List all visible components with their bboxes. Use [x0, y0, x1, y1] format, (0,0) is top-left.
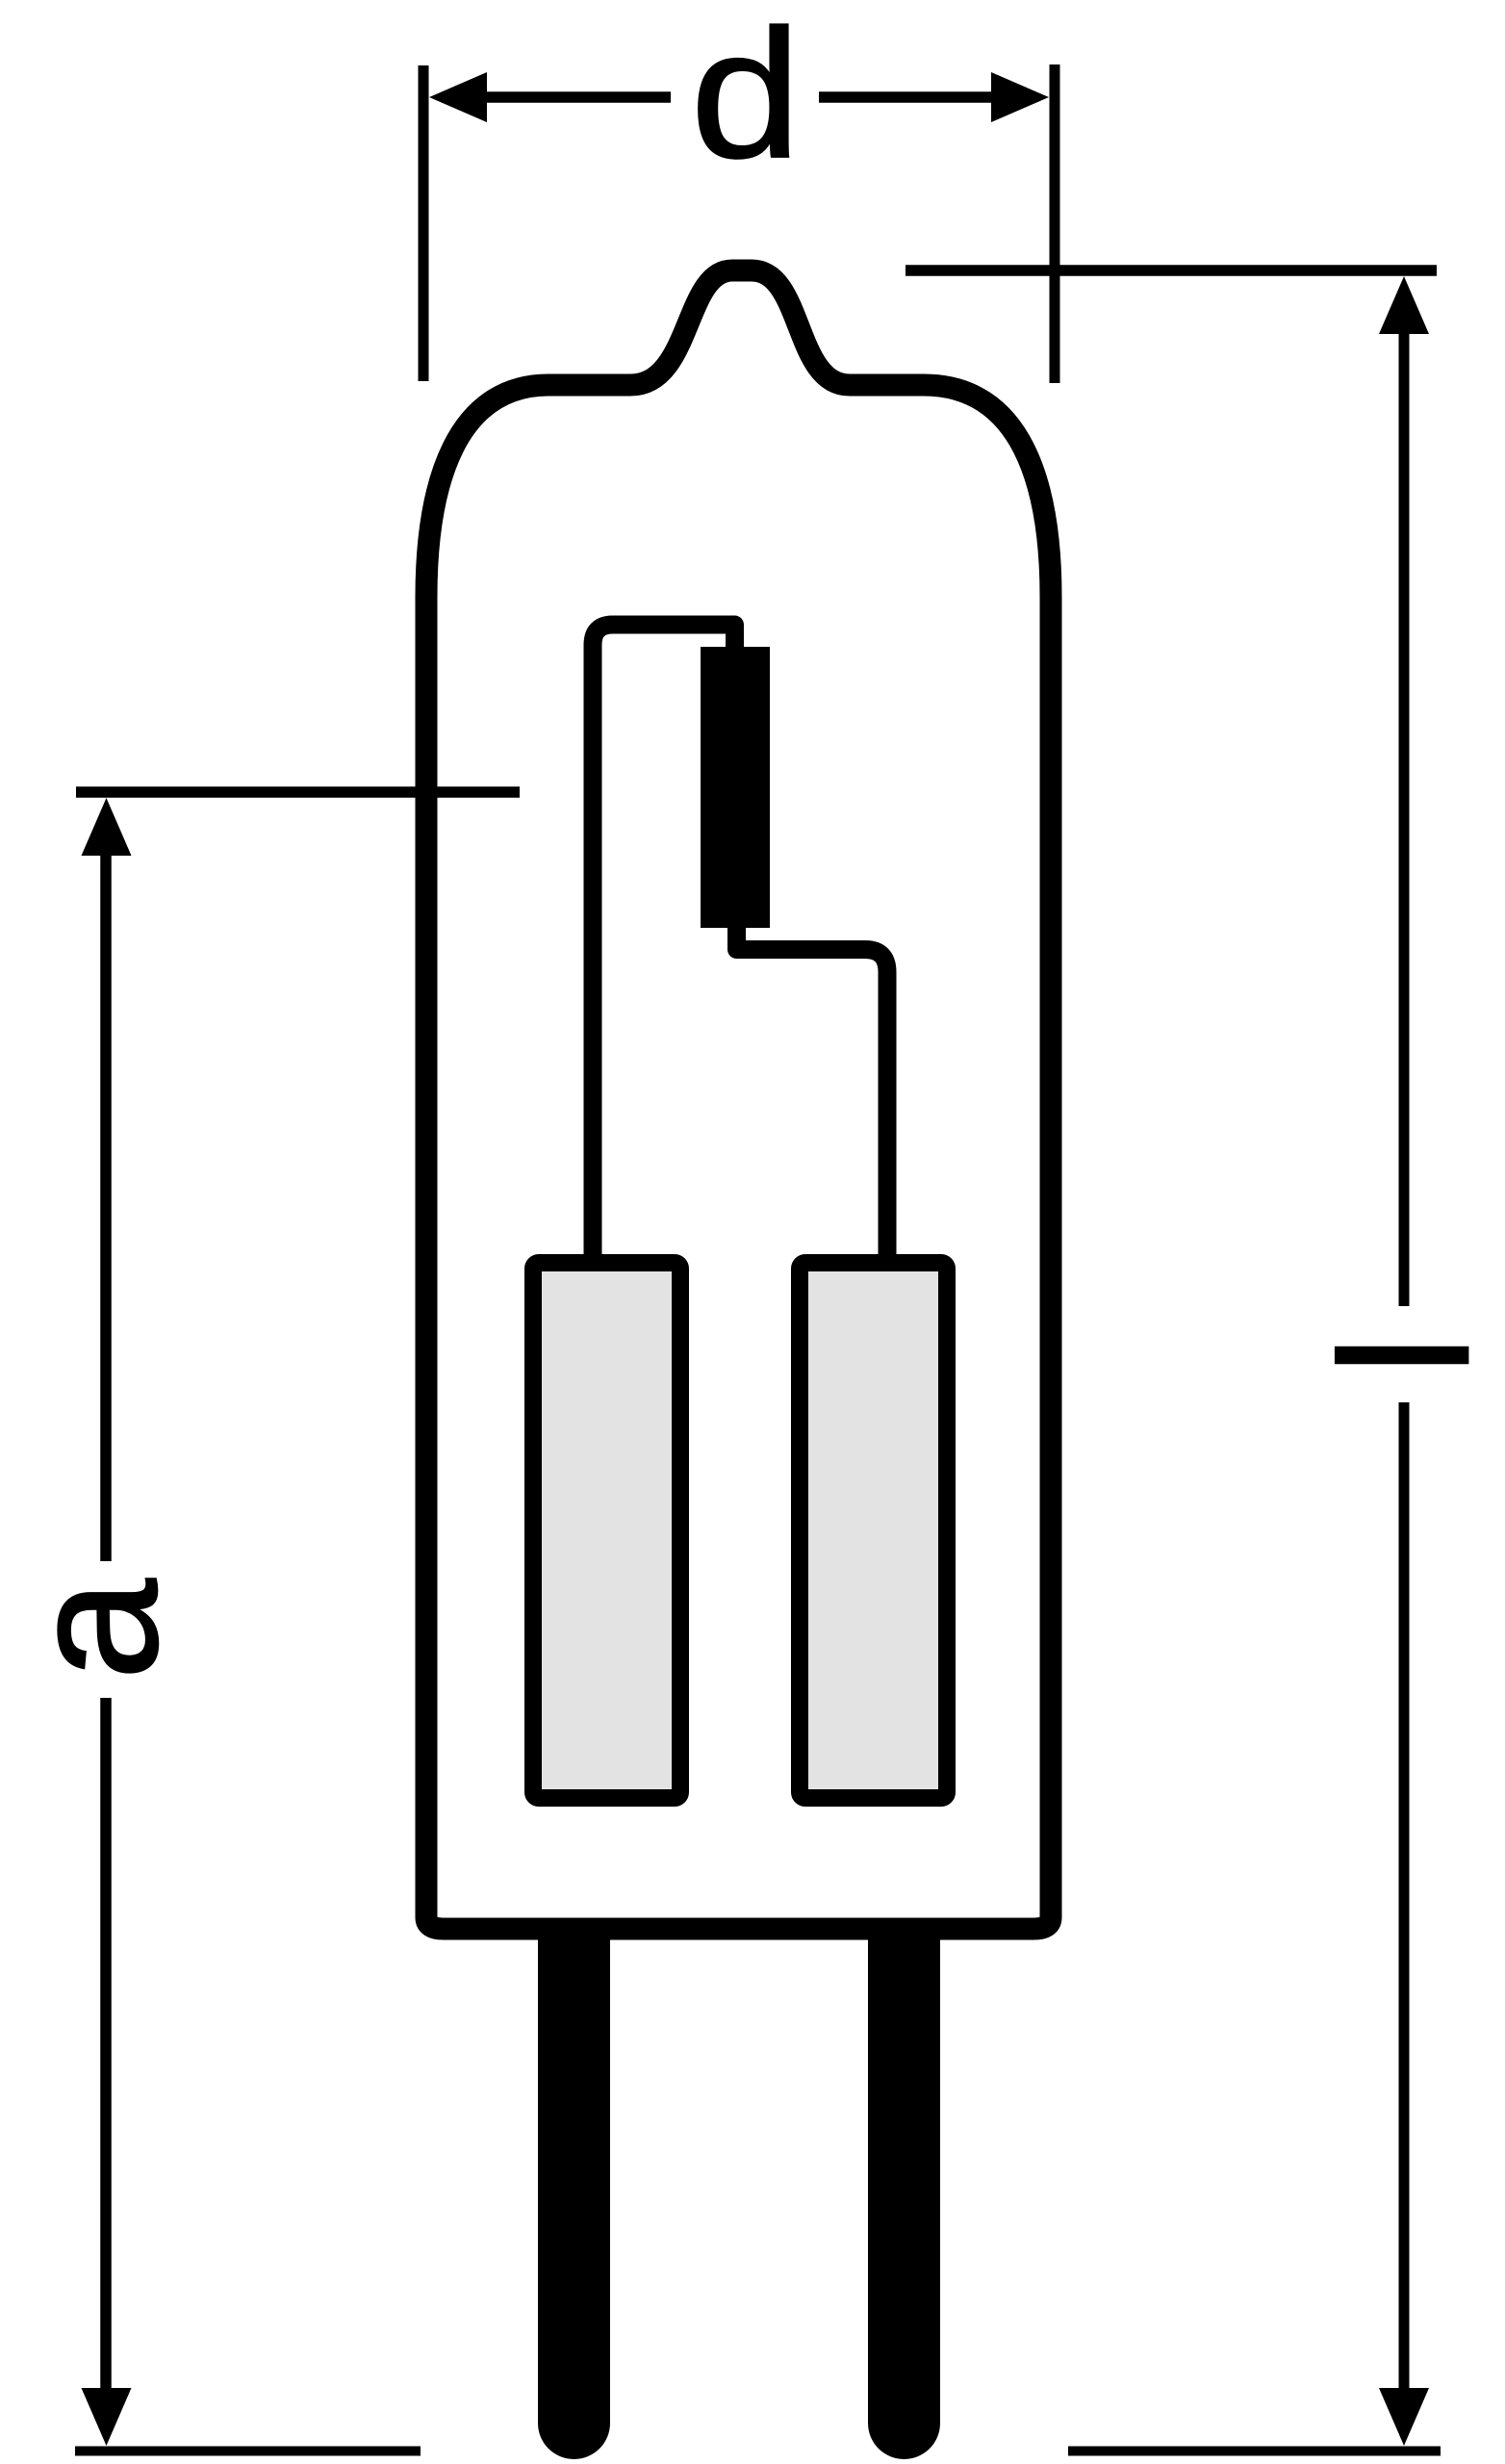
dimension d: right extension line: [1050, 64, 1060, 383]
svg-text:d: d: [690, 0, 801, 196]
dimension d: left extension line: [419, 65, 429, 381]
dimension l: top arrowhead: [1379, 276, 1429, 334]
dimension d: right shaft segment: [819, 91, 996, 103]
svg-text:l: l: [1304, 1335, 1505, 1375]
pin-end reference line left: [75, 2447, 421, 2456]
dimension d: left shaft segment: [484, 91, 671, 103]
dimension a: top tick line: [76, 786, 520, 798]
dimension a: upper shaft: [100, 853, 112, 1561]
svg-text:a: a: [0, 1578, 196, 1681]
dimension a: top arrowhead: [82, 798, 132, 856]
right support rod: [800, 1263, 947, 1798]
dimension l: upper shaft: [1399, 331, 1410, 1306]
right lead wire: [737, 914, 888, 1261]
dimension l: bottom arrowhead: [1379, 2388, 1429, 2446]
dimension a: bottom arrowhead: [82, 2388, 132, 2446]
left support rod: [533, 1263, 680, 1798]
dimension d: left arrowhead: [429, 72, 487, 122]
left lead wire: [593, 625, 735, 1261]
filament: [701, 647, 770, 928]
dimension d: right arrowhead: [991, 72, 1049, 122]
top reference line at bulb tip level: [906, 265, 1437, 276]
left pin: [538, 1929, 610, 2459]
dimension a: lower shaft: [100, 1698, 112, 2391]
pin-end reference line right: [1068, 2447, 1441, 2456]
right pin: [868, 1929, 940, 2459]
dimension l: lower shaft: [1399, 1402, 1410, 2391]
bulb envelope outline: [426, 270, 1051, 1929]
